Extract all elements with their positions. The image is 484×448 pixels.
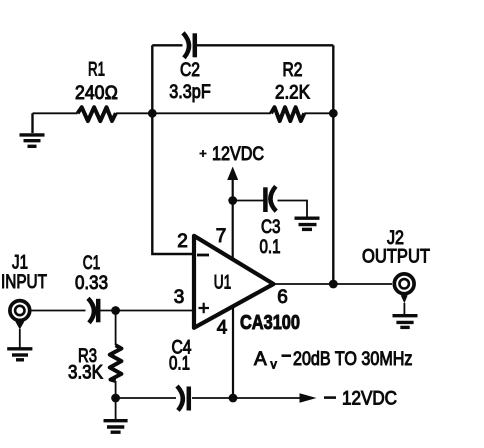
svg-text:12VDC: 12VDC bbox=[212, 144, 264, 165]
wire: ground stub below R3 node bbox=[115, 398, 117, 420]
svg-text:C2: C2 bbox=[180, 60, 200, 81]
ground (J1) bbox=[7, 349, 32, 360]
svg-text:4: 4 bbox=[217, 318, 228, 339]
svg-text:7: 7 bbox=[216, 226, 227, 247]
svg-text:3: 3 bbox=[174, 287, 185, 308]
node: R1 / C2 branch junction bbox=[148, 109, 157, 118]
node: output / right rail junction bbox=[329, 280, 338, 289]
connector J1 bbox=[10, 301, 30, 348]
wire: pin 7 lead bbox=[232, 201, 234, 260]
svg-text:J1: J1 bbox=[12, 253, 28, 274]
resistor R2 bbox=[271, 107, 304, 121]
svg-text:C3: C3 bbox=[261, 217, 281, 238]
wire: C3 to ground bbox=[278, 201, 308, 217]
svg-text:CA3100: CA3100 bbox=[240, 312, 300, 334]
+12VDC arrow bbox=[232, 179, 234, 201]
svg-text:12VDC: 12VDC bbox=[342, 389, 397, 410]
wire: left ground to R1 bbox=[33, 112, 78, 114]
label -12VDC bbox=[324, 396, 336, 399]
wire: ground stub bbox=[31, 113, 33, 133]
svg-text:OUTPUT: OUTPUT bbox=[362, 247, 430, 268]
svg-text:R2: R2 bbox=[283, 60, 303, 81]
wire: J1 to C1 bbox=[32, 310, 86, 312]
label Av = 20dB TO 30MHz bbox=[254, 349, 413, 372]
wire: pin 4 lead bbox=[232, 306, 234, 399]
label +12VDC bbox=[200, 150, 207, 157]
resistor R1 bbox=[78, 107, 116, 121]
ground (R3) bbox=[104, 421, 128, 433]
op-amp U1 bbox=[194, 236, 274, 328]
svg-text:2: 2 bbox=[177, 231, 188, 252]
resistor R3 bbox=[110, 345, 122, 381]
capacitor C3 bbox=[265, 186, 276, 212]
capacitor C4 bbox=[177, 386, 189, 411]
node: R2 / right rail junction bbox=[329, 109, 338, 118]
svg-text:2.2K: 2.2K bbox=[275, 83, 310, 104]
wire: node to C3 bbox=[233, 200, 264, 202]
node: +12V supply junction bbox=[228, 196, 237, 205]
svg-text:C1: C1 bbox=[83, 253, 101, 274]
wire: R1 to R2 (feedback rail) bbox=[116, 112, 271, 114]
-12VDC arrow bbox=[233, 397, 301, 399]
wire: C4 to pin4 node bbox=[192, 397, 233, 399]
svg-text:A: A bbox=[254, 349, 267, 370]
wire: C2 to top right corner bbox=[197, 44, 334, 46]
node: C1 / R3 junction bbox=[111, 306, 120, 315]
inverting input minus bbox=[197, 254, 209, 257]
wire: node to C4 bbox=[116, 397, 176, 399]
svg-text:3.3pF: 3.3pF bbox=[169, 82, 211, 103]
capacitor C1 bbox=[88, 298, 98, 323]
svg-text:3.3K: 3.3K bbox=[68, 363, 103, 384]
connector J2 bbox=[394, 274, 414, 315]
ground (J2) bbox=[393, 316, 418, 328]
svg-text:v: v bbox=[271, 358, 278, 372]
wire: left vertical branch and pin2 lead bbox=[152, 45, 194, 254]
wire: R3 to bottom node bbox=[115, 381, 117, 398]
non-inverting input plus bbox=[199, 303, 210, 314]
wire: top left to C2 bbox=[152, 44, 182, 46]
svg-text:R1: R1 bbox=[88, 60, 105, 81]
svg-text:0.1: 0.1 bbox=[169, 354, 190, 375]
wire: C1 to pin 3 bbox=[100, 310, 194, 312]
svg-text:240Ω: 240Ω bbox=[75, 83, 118, 104]
wire: node down to R3 bbox=[115, 311, 117, 346]
svg-text:INPUT: INPUT bbox=[1, 272, 47, 293]
svg-text:20dB TO 30MHz: 20dB TO 30MHz bbox=[293, 349, 413, 370]
svg-text:0.1: 0.1 bbox=[260, 237, 281, 258]
capacitor C2 bbox=[183, 33, 195, 58]
node: R3 bottom junction bbox=[111, 394, 120, 403]
wire: output to J2 bbox=[274, 283, 393, 285]
svg-text:6: 6 bbox=[277, 287, 288, 308]
wire: right vertical rail bbox=[332, 45, 334, 284]
svg-text:0.33: 0.33 bbox=[75, 273, 108, 294]
ground (C3) bbox=[295, 218, 320, 229]
svg-text:U1: U1 bbox=[214, 273, 232, 294]
ground (left of R1) bbox=[20, 135, 45, 146]
node: pin4 / -12V junction bbox=[229, 394, 238, 403]
wire: R2 to right rail bbox=[304, 112, 333, 114]
